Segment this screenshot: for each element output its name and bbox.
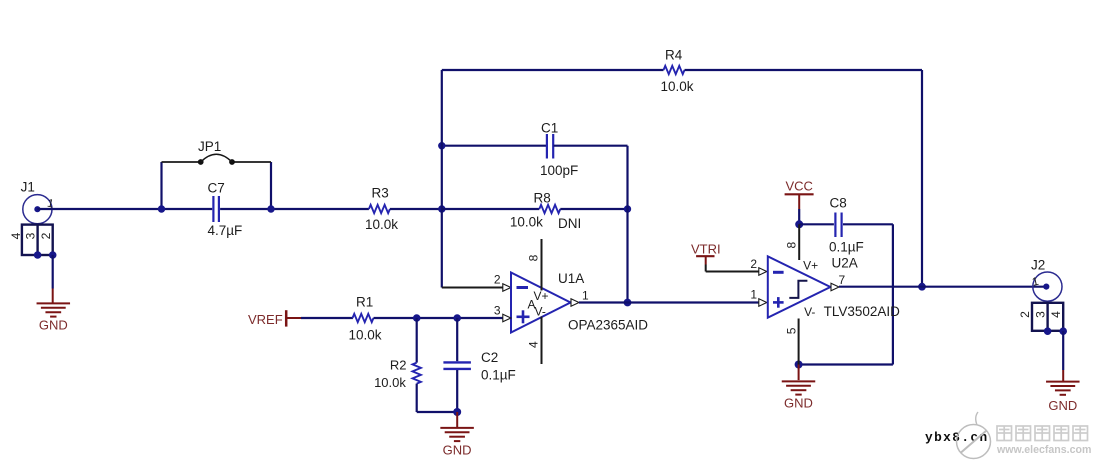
svg-text:3: 3 <box>494 303 501 317</box>
svg-text:V+: V+ <box>803 258 818 272</box>
svg-text:R3: R3 <box>372 186 389 201</box>
svg-text:C2: C2 <box>481 350 498 365</box>
svg-text:4: 4 <box>9 232 23 239</box>
svg-text:GND: GND <box>39 318 68 333</box>
svg-text:OPA2365AID: OPA2365AID <box>568 318 648 333</box>
svg-text:2: 2 <box>494 272 501 286</box>
svg-text:0.1µF: 0.1µF <box>829 240 864 255</box>
svg-text:2: 2 <box>39 232 53 239</box>
svg-text:V-: V- <box>804 305 815 319</box>
svg-text:1: 1 <box>582 289 589 303</box>
svg-text:J2: J2 <box>1031 257 1045 272</box>
svg-text:U2A: U2A <box>832 256 858 271</box>
svg-text:100pF: 100pF <box>540 163 578 178</box>
svg-text:GND: GND <box>784 396 813 411</box>
svg-text:GND: GND <box>443 442 472 457</box>
svg-text:DNI: DNI <box>558 216 581 231</box>
svg-text:8: 8 <box>527 254 541 261</box>
svg-text:10.0k: 10.0k <box>374 375 406 390</box>
svg-text:10.0k: 10.0k <box>365 217 398 232</box>
svg-text:C7: C7 <box>208 181 225 196</box>
svg-text:U1A: U1A <box>558 271 584 286</box>
svg-text:0.1µF: 0.1µF <box>481 368 516 383</box>
svg-text:7: 7 <box>839 273 846 287</box>
svg-text:10.0k: 10.0k <box>510 215 543 230</box>
svg-text:JP1: JP1 <box>198 139 221 154</box>
svg-text:GND: GND <box>1048 398 1077 413</box>
svg-text:R2: R2 <box>390 358 407 373</box>
svg-text:4: 4 <box>527 341 541 348</box>
svg-text:4.7µF: 4.7µF <box>208 223 243 238</box>
svg-text:www.elecfans.com: www.elecfans.com <box>996 444 1091 456</box>
svg-text:8: 8 <box>784 242 798 249</box>
svg-text:TLV3502AID: TLV3502AID <box>824 304 901 319</box>
svg-text:C1: C1 <box>541 121 558 136</box>
svg-text:VREF: VREF <box>248 312 283 327</box>
svg-text:2: 2 <box>750 257 757 271</box>
svg-text:V+: V+ <box>534 289 549 303</box>
svg-text:3: 3 <box>1033 311 1047 318</box>
svg-text:10.0k: 10.0k <box>349 328 382 343</box>
svg-text:J1: J1 <box>21 180 35 195</box>
svg-text:10.0k: 10.0k <box>661 79 694 94</box>
svg-text:5: 5 <box>784 327 798 334</box>
svg-text:R4: R4 <box>665 48 683 63</box>
svg-text:3: 3 <box>23 232 37 239</box>
svg-text:VCC: VCC <box>786 178 813 193</box>
svg-text:VTRI: VTRI <box>691 242 721 257</box>
svg-text:4: 4 <box>1049 311 1063 318</box>
svg-text:2: 2 <box>1018 311 1032 318</box>
svg-text:R1: R1 <box>356 295 373 310</box>
svg-text:C8: C8 <box>830 196 847 211</box>
svg-text:V-: V- <box>535 305 546 319</box>
svg-text:1: 1 <box>750 287 757 301</box>
